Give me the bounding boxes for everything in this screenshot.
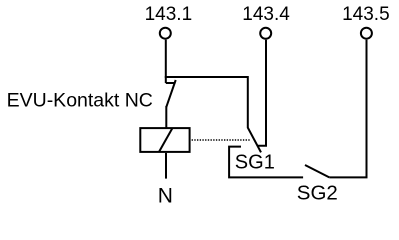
svg-text:143.5: 143.5	[342, 4, 390, 25]
svg-text:143.4: 143.4	[242, 4, 290, 25]
svg-text:N: N	[158, 184, 173, 207]
svg-text:SG1: SG1	[235, 151, 275, 173]
svg-text:143.1: 143.1	[145, 4, 193, 25]
svg-text:SG2: SG2	[297, 181, 338, 204]
svg-text:EVU-Kontakt NC: EVU-Kontakt NC	[7, 90, 153, 112]
